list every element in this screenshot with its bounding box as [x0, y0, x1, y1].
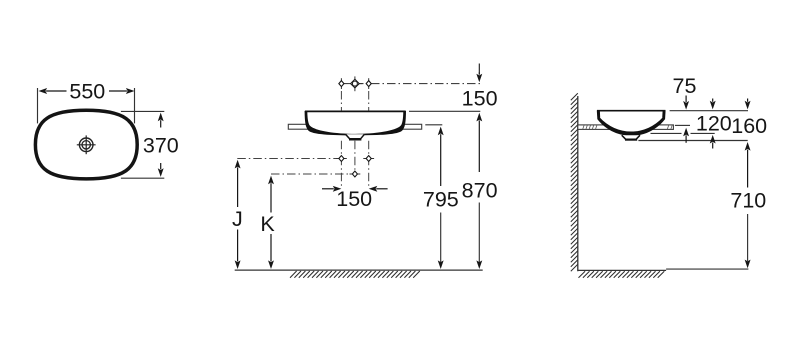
svg-text:75: 75 [673, 74, 697, 98]
svg-text:150: 150 [336, 187, 372, 211]
svg-text:120: 120 [696, 112, 732, 136]
svg-text:550: 550 [69, 80, 105, 104]
svg-text:160: 160 [731, 114, 767, 138]
svg-text:870: 870 [462, 178, 498, 202]
svg-text:795: 795 [423, 187, 459, 211]
svg-text:710: 710 [730, 189, 766, 213]
svg-text:J: J [232, 207, 243, 231]
svg-text:K: K [260, 212, 275, 236]
svg-text:370: 370 [143, 133, 179, 157]
svg-text:150: 150 [462, 86, 498, 110]
